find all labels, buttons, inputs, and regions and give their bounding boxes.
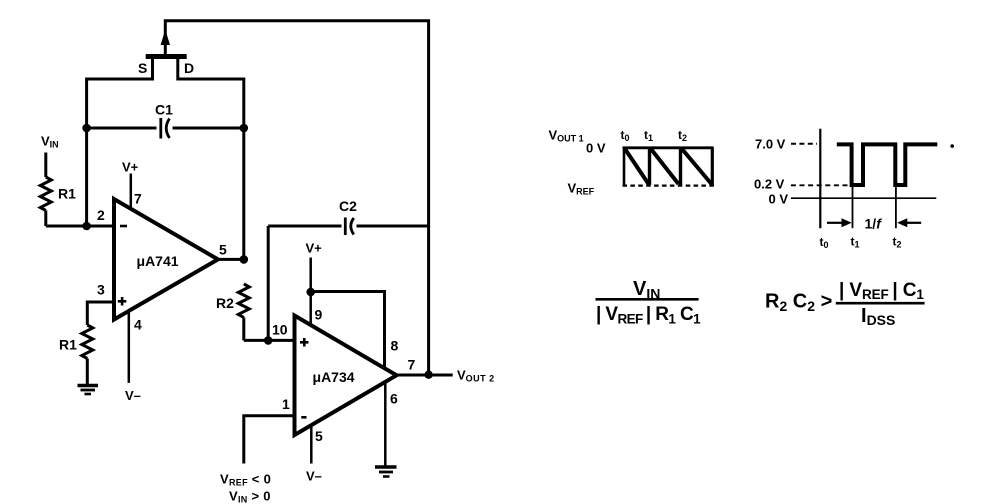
svg-text:5: 5 <box>315 428 323 444</box>
svg-text:5: 5 <box>219 242 227 258</box>
svg-text:R1: R1 <box>59 337 77 353</box>
svg-text:3: 3 <box>97 282 105 298</box>
svg-text:VIN > 0: VIN > 0 <box>229 489 271 504</box>
svg-text:9: 9 <box>315 307 323 323</box>
svg-text:6: 6 <box>390 391 398 407</box>
svg-text:7: 7 <box>134 191 142 207</box>
svg-text:C2: C2 <box>339 198 357 214</box>
svg-text:D: D <box>184 60 194 76</box>
svg-text:μA741: μA741 <box>137 253 179 269</box>
svg-text:1/f: 1/f <box>865 216 883 232</box>
svg-text:2: 2 <box>97 207 105 223</box>
svg-text:V+: V+ <box>306 241 323 256</box>
svg-text:0 V: 0 V <box>586 141 606 156</box>
svg-text:7: 7 <box>408 357 416 373</box>
svg-text:0 V: 0 V <box>769 192 789 207</box>
svg-text:V–: V– <box>306 469 322 484</box>
svg-text:10: 10 <box>272 322 288 338</box>
svg-text:8: 8 <box>391 338 399 354</box>
svg-text:R2 C2 >: R2 C2 > <box>765 291 832 315</box>
svg-text:S: S <box>138 60 147 76</box>
svg-text:V+: V+ <box>122 160 139 175</box>
svg-text:V–: V– <box>125 388 141 403</box>
svg-text:R1: R1 <box>58 186 76 202</box>
svg-text:| VREF | R1 C1: | VREF | R1 C1 <box>596 304 701 326</box>
svg-text:C1: C1 <box>155 102 173 118</box>
svg-text:μA734: μA734 <box>313 369 355 385</box>
svg-text:7.0 V: 7.0 V <box>755 137 786 152</box>
svg-text:4: 4 <box>134 317 142 333</box>
svg-text:1: 1 <box>282 396 290 412</box>
svg-text:0.2 V: 0.2 V <box>754 177 785 192</box>
svg-text:R2: R2 <box>216 295 234 311</box>
